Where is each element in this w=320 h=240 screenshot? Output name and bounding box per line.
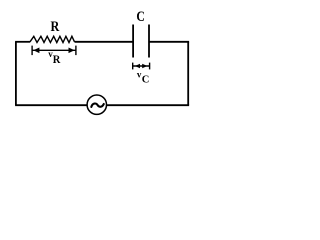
vC arrow left head [135, 64, 140, 69]
vR arrow right tick [75, 46, 77, 56]
vC measurement arrow line [133, 65, 150, 67]
vC arrow left tick [132, 63, 134, 70]
AC source sine symbol [91, 104, 104, 107]
svg-text:R: R [53, 52, 61, 66]
wire: right side of loop [187, 42, 189, 105]
vR arrow left tick [31, 46, 33, 56]
wire: bottom-right segment from corner to source [106, 104, 189, 106]
wire: top-middle segment between resistor and capacitor [75, 41, 134, 43]
wire: top-right segment from capacitor to corner [149, 41, 189, 43]
svg-text:C: C [142, 75, 150, 86]
capacitor C1 left plate [132, 25, 134, 58]
wire: left side of loop [15, 42, 17, 105]
svg-text:C: C [136, 9, 145, 25]
vR arrow left head [33, 48, 39, 54]
svg-text:R: R [51, 19, 60, 35]
vC arrow right head [142, 64, 147, 69]
AC source V1 circle [87, 95, 106, 114]
wire: bottom-left segment from source to corner [15, 104, 87, 106]
vR measurement arrow line [32, 49, 76, 51]
vC arrow right tick [149, 63, 151, 70]
vR arrow right head [69, 48, 75, 54]
wire: top-left segment to resistor [15, 41, 30, 43]
capacitor C1 right plate [148, 25, 150, 58]
resistor R1 zigzag [30, 36, 75, 42]
